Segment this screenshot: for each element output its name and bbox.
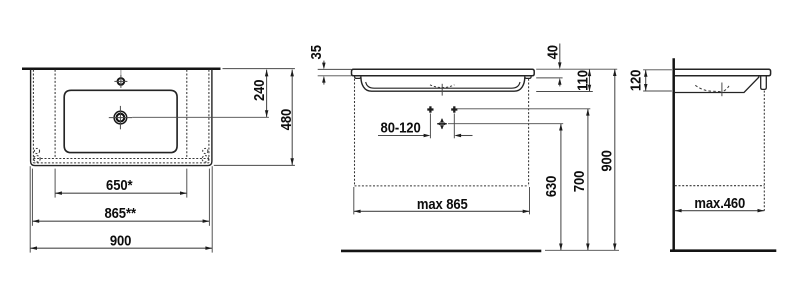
plan view: inner basin bowl [64,90,177,152]
svg-text:900: 900 [597,150,614,172]
extension line bottom right (front edge level) [214,164,295,166]
plan view: dashed inner outline verticals [32,70,34,163]
dimension max.460 [675,210,765,212]
extension line from drain to 240 dimension [132,116,269,118]
plan view: washbasin outer body [31,70,212,166]
extension line top right (wall level) [223,68,295,70]
side view: floor line (thick) [670,249,776,252]
front view: bowl underside outer profile [361,77,525,91]
side view: drain centre line [721,83,723,97]
side view: bowl underside [675,76,759,93]
extension line tap cross to 700 dimension [457,108,590,110]
dimension 900 (overall width) [30,247,212,249]
dimension 865** extension lines [31,169,33,226]
dimension 110 (basin height) [589,69,591,91]
side view: front apron tail [761,76,767,90]
dimension 650* [55,192,187,194]
svg-text:480: 480 [277,109,294,131]
dimension 120 extension lines [643,69,672,71]
extension line rim top to 900 dimension [536,68,617,70]
svg-text:max 865: max 865 [417,195,468,212]
extension line drain centre to 630 dimension [448,123,563,125]
dimension max 865 extension lines [353,187,355,214]
dimension 900 (rim height) [614,69,616,250]
plan view: drain symbol [114,111,127,124]
plan view: dashed horizontal lines near front edge [33,158,209,160]
front view: dashed furniture clearance outline [354,79,356,186]
dimension 120 (basin height side) [645,70,647,91]
front view: drain centre line [441,84,443,96]
plan view: wall line (thick) [22,67,221,70]
dimension 700 (apron height) [587,109,589,251]
side view: dashed clearance horizontal [675,185,765,187]
front view: floor line (thick) [341,250,541,253]
dimension 630 (drain height) [560,124,562,251]
front view: dashed drain recess [430,85,454,88]
dimension 80-120 vertical lines [429,114,431,139]
svg-text:120: 120 [626,69,643,91]
svg-text:35: 35 [307,45,324,60]
svg-text:80-120: 80-120 [381,118,421,135]
dimension max 865 [354,210,530,212]
front view: basin rim slab [352,69,535,76]
svg-text:240: 240 [250,79,267,101]
drain four-way position symbol [437,123,447,125]
dimension 480 (overall depth) [291,70,293,166]
dimension 110 extension line [536,91,593,93]
svg-text:650*: 650* [106,176,133,193]
side view: wall line (thick) [672,58,675,252]
dimension 35 extension lines [318,68,352,70]
floor extension line to height dimensions [545,249,619,251]
dimension 40 (rim to apron) [559,44,561,65]
dimension 80-120 (tap hole range) [378,135,428,137]
front view: bowl underside inner line [366,82,520,88]
dimension 865** [32,220,209,222]
svg-text:900: 900 [110,231,132,248]
svg-text:max.460: max.460 [694,194,745,211]
front view: right apron tab [525,76,531,79]
tap hole position cross right [451,108,457,110]
side view: basin rim slab [675,69,771,76]
svg-text:865**: 865** [104,204,136,221]
dimension 650* extension lines [54,169,56,198]
svg-text:40: 40 [544,45,561,60]
plan view: dashed fixing hole left [34,148,39,153]
side view: dashed clearance vertical [763,91,765,211]
dimension 240 (wall to drain) [266,70,268,117]
svg-text:700: 700 [570,170,587,192]
dimension 40 extension line [536,77,562,79]
plan view: dashed fixing hole right [203,148,208,153]
side view: dashed bowl interior [695,85,722,91]
tap hole position cross left [427,108,433,110]
plan view: tap hole centre mark [120,70,122,75]
svg-text:630: 630 [542,175,559,197]
plan view: dashed clearance verticals (650 span) [54,70,56,159]
svg-text:110: 110 [573,70,590,91]
dimension 35 (rim thickness) [323,61,325,65]
dimension 900 extension lines [29,166,31,252]
front view: left apron tab [355,76,361,79]
